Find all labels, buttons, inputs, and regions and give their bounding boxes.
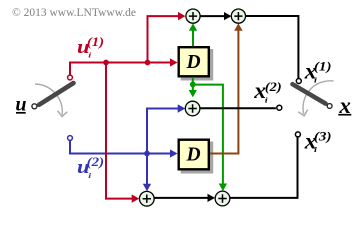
svg-text:D: D <box>185 52 200 73</box>
svg-text:(2): (2) <box>265 79 282 94</box>
svg-text:i: i <box>314 146 318 154</box>
svg-text:i: i <box>314 76 318 84</box>
svg-text:(1): (1) <box>87 34 104 49</box>
svg-text:(2): (2) <box>87 154 104 169</box>
svg-text:i: i <box>88 172 92 180</box>
svg-text:i: i <box>88 52 92 60</box>
svg-text:D: D <box>185 145 200 166</box>
svg-text:© 2013 www.LNTwww.de: © 2013 www.LNTwww.de <box>12 7 136 19</box>
svg-text:(3): (3) <box>314 129 332 144</box>
svg-text:(1): (1) <box>314 59 332 74</box>
svg-text:i: i <box>265 96 269 104</box>
